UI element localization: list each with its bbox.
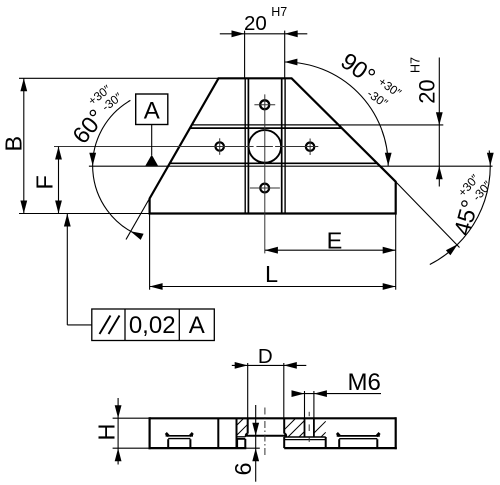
- recess floor with relief notches: [246, 433, 286, 435]
- left T-slot neck: [167, 439, 169, 448]
- svg-text:A: A: [189, 312, 205, 339]
- center recess left wall: [247, 418, 249, 433]
- extension lines below part (E, L): [149, 214, 151, 290]
- right slant extension line: [396, 182, 460, 248]
- svg-text:H: H: [94, 424, 120, 441]
- extension line y=166.2 right (20 H7, 45deg): [380, 165, 492, 167]
- right T-slot barbs: [337, 433, 340, 436]
- svg-text:H7: H7: [271, 5, 287, 19]
- datum A box: [136, 94, 168, 125]
- dimension H line and outside arrows: [117, 398, 119, 465]
- extension lines for top 20 H7: [244, 31, 246, 79]
- parallelism symbol: [100, 316, 111, 335]
- svg-text:20: 20: [414, 79, 439, 103]
- small box under left rib: [237, 436, 246, 438]
- datum triangle: [145, 155, 158, 166]
- 6 extension line: [240, 447, 260, 449]
- hatching between recess and M6 hole: [284, 418, 295, 429]
- vertical centerline: [264, 94, 266, 253]
- dimension M6 line and outside arrows: [293, 393, 381, 395]
- under-band right of recess: [284, 436, 326, 438]
- dimension L line and arrows: [150, 286, 396, 288]
- svg-text:0,02: 0,02: [129, 312, 176, 339]
- 60deg dimension arc: [93, 100, 140, 235]
- left T-slot cavity lines: [166, 435, 193, 437]
- svg-text:B: B: [1, 136, 27, 152]
- left slant extension line: [126, 199, 149, 240]
- extension line y=166.2 left (60deg, datum): [89, 165, 168, 167]
- svg-text:E: E: [327, 227, 343, 253]
- dimension 6 line and outside arrows: [255, 405, 257, 482]
- 45deg dimension arc: [430, 150, 490, 264]
- left hole: [216, 142, 224, 150]
- bottom hole crosshair: [250, 187, 280, 189]
- svg-text:6: 6: [230, 462, 256, 475]
- side view top edge: [150, 417, 396, 419]
- hatching left rib: [237, 418, 244, 425]
- D extension lines: [247, 363, 249, 418]
- datum leader: [151, 125, 153, 156]
- feature control frame leader: [66, 214, 68, 325]
- right hole crosshair: [309, 139, 311, 156]
- 90deg dimension arc: [284, 62, 388, 166]
- side view bottom edge right part: [284, 447, 397, 449]
- M6 tapped hole walls: [304, 418, 306, 437]
- svg-text:F: F: [32, 175, 58, 189]
- svg-text:20: 20: [244, 12, 267, 35]
- horizontal slot band outer lines: [192, 124, 339, 126]
- central bore circle: [248, 130, 281, 163]
- dimension 20 H7 right: line and outside arrows: [438, 58, 440, 187]
- extension line top edge (for B): [19, 77, 219, 79]
- horizontal centerline segments: [54, 146, 254, 148]
- dimension E line and arrows: [265, 249, 396, 251]
- svg-text:D: D: [258, 345, 273, 368]
- svg-text:H7: H7: [409, 57, 423, 73]
- side view bottom edge left part: [149, 447, 247, 449]
- right T-slot cavity lines: [337, 435, 380, 437]
- side view right edge: [395, 417, 397, 449]
- side view vertical centerline: [264, 408, 266, 457]
- dimension 20 H7 top: line and outside arrows: [220, 33, 307, 35]
- M6 extension lines: [304, 391, 306, 418]
- extension line y=124.9 right (for right 20 H7): [338, 124, 443, 126]
- svg-text:L: L: [265, 261, 278, 287]
- left T-slot barbs: [166, 433, 169, 436]
- 60deg arc arrows: [89, 153, 96, 166]
- dimension D line and outside arrows: [232, 364, 306, 366]
- center recess right wall: [283, 418, 285, 433]
- right hole: [306, 143, 314, 151]
- side view inner vertical walls: [217, 418, 219, 448]
- bottom hole: [260, 184, 269, 193]
- svg-text:A: A: [144, 98, 160, 125]
- part outline (main/top view): [150, 78, 396, 213]
- side view left edge: [149, 417, 151, 449]
- vertical slot band outer lines: [244, 78, 246, 213]
- horizontal slot band inner lines: [190, 127, 342, 129]
- 90deg arc arrows: [284, 59, 297, 66]
- extension line bottom edge left (for B,F): [19, 213, 150, 215]
- right T-slot neck: [338, 439, 340, 448]
- dimension B line and arrows: [23, 78, 25, 213]
- dimension F line and arrows: [58, 147, 60, 214]
- svg-text:M6: M6: [348, 369, 381, 396]
- 45deg arc arrows: [487, 153, 494, 166]
- H extension lines: [113, 417, 150, 419]
- vertical slot band inner lines: [247, 78, 249, 213]
- feature control frame leader arrow: [64, 214, 71, 227]
- top hole: [260, 100, 269, 109]
- M6 hole centerline: [308, 412, 310, 416]
- hatching right of M6 hole: [314, 421, 326, 433]
- feature control frame box: [92, 309, 215, 341]
- left hole crosshair: [219, 138, 221, 155]
- top hole crosshair: [254, 104, 275, 106]
